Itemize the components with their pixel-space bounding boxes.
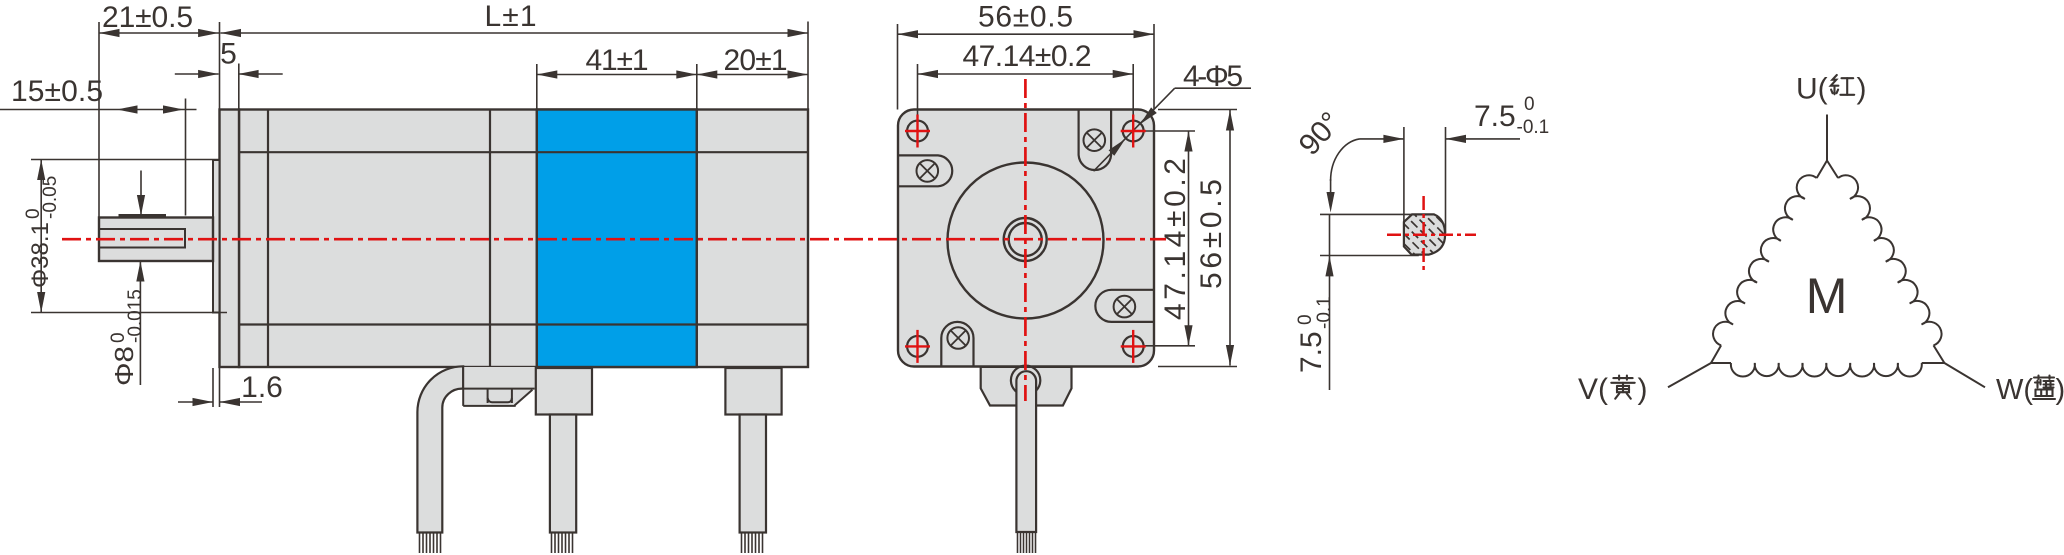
- ext line square bottom (right): [1158, 366, 1237, 368]
- body vertical line at x=268: [267, 110, 269, 368]
- svg-text:20±1: 20±1: [724, 44, 788, 77]
- front face plate (square): [898, 110, 1154, 367]
- frayed wires (right cable): [742, 532, 763, 554]
- winding lead V: [1668, 363, 1711, 387]
- svg-text:V(: V(: [1578, 373, 1608, 406]
- pilot circle: [948, 163, 1104, 319]
- grommet hole circle: [1011, 366, 1040, 395]
- screw tab top-right: [1079, 110, 1112, 171]
- middle cable tube: [550, 415, 576, 533]
- mounting hole top-right: [1123, 121, 1144, 142]
- dim 15±0.5 arrow left: [117, 105, 138, 113]
- dim 15±0.5 line: [0, 109, 197, 111]
- dim Φ38.1 ext bottom: [31, 312, 227, 314]
- dim 56 top arrow right: [1134, 30, 1155, 38]
- connector housing fill: [463, 367, 537, 389]
- shaft reduced section (inner rectangle): [99, 229, 185, 248]
- frayed wires (curved cable): [420, 532, 441, 554]
- svg-text:W(: W(: [1996, 374, 2033, 406]
- dim 20±1 arrow left: [697, 70, 718, 78]
- frayed wires (middle cable): [552, 532, 573, 554]
- dim 41±1 line: [537, 74, 697, 76]
- winding apex split: [1817, 161, 1838, 179]
- dim L±1 line: [221, 32, 809, 34]
- ext line hole BR (right): [1144, 345, 1196, 347]
- dim 1.6 arrow left: [178, 401, 213, 403]
- section ext line left flat (up): [1403, 127, 1405, 222]
- winding coil right side: [1838, 175, 1941, 345]
- front view vertical centreline: [1024, 79, 1027, 401]
- frayed wires (front cable): [1018, 532, 1036, 554]
- dim 7.5 top arrow right: [1446, 138, 1521, 140]
- blue label section: [537, 110, 697, 368]
- dim 7.5 left arrow bottom: [1329, 256, 1331, 390]
- dim L±1 arrow left: [221, 29, 242, 37]
- dim 5 arrow left: [175, 73, 219, 75]
- svg-text:-0.015: -0.015: [125, 289, 146, 343]
- dim 56 right arrow top: [1226, 110, 1234, 131]
- dim 1.6 ext line flange face: [219, 368, 221, 407]
- label 4-Φ5 arrow lower: [1109, 139, 1126, 156]
- svg-text:15±0.5: 15±0.5: [11, 75, 103, 108]
- dim Φ8 arrow bottom: [139, 261, 141, 385]
- svg-text:47.14±0.2: 47.14±0.2: [963, 40, 1092, 73]
- dim L±1 arrow right: [788, 29, 809, 37]
- main horizontal centreline: [62, 238, 1166, 241]
- dim Φ8 arrow top: [140, 171, 142, 216]
- screw tab bottom-left: [941, 322, 973, 367]
- ext line hole TR (up): [1132, 64, 1134, 121]
- front cable tube: [1016, 371, 1036, 532]
- section crosshair vertical: [1422, 196, 1425, 271]
- extension line flange back (up): [238, 64, 240, 110]
- dim Φ38.1 arrow bottom: [37, 292, 45, 313]
- section ext line top flat (left): [1320, 213, 1412, 215]
- ext line hole TL (up): [917, 64, 919, 121]
- dim 15±0.5 arrow right: [163, 105, 184, 113]
- shaft (side view): [99, 218, 213, 262]
- dim Φ38.1 arrow top: [37, 160, 45, 181]
- right cable block: [725, 368, 781, 415]
- screw bottom-left: [947, 327, 969, 349]
- svg-text:5: 5: [220, 38, 237, 71]
- dim 20±1 arrow right: [788, 70, 809, 78]
- motor body (side view): [239, 110, 808, 368]
- shaft circle outer: [1004, 218, 1047, 261]
- dim 47.14 top arrow left: [918, 70, 939, 78]
- winding coil left side: [1713, 175, 1817, 345]
- svg-text:1.6: 1.6: [241, 371, 283, 404]
- svg-text:21±0.5: 21±0.5: [102, 1, 193, 34]
- dim 21±0.5 arrow left: [99, 29, 120, 37]
- cable grommet (front view): [981, 367, 1072, 406]
- dim 90° leader arc: [1331, 139, 1360, 181]
- extension line front face (up): [219, 22, 221, 110]
- ext line square left (up): [897, 24, 899, 110]
- screw top-left: [917, 160, 939, 182]
- svg-text:0: 0: [1295, 314, 1316, 325]
- label 4-Φ5 arrow upper: [1140, 107, 1157, 124]
- shaft key flat: [119, 214, 167, 217]
- red crosshairs at mounting holes: [905, 115, 1146, 363]
- screw bottom-right: [1114, 296, 1136, 318]
- svg-text:): ): [1638, 373, 1648, 406]
- svg-text:7.5: 7.5: [1474, 100, 1516, 133]
- svg-text:7.5: 7.5: [1295, 331, 1328, 373]
- winding corner bottom-right: [1922, 345, 1945, 363]
- screw top-right: [1084, 129, 1106, 151]
- dim 41±1 arrow left: [537, 70, 558, 78]
- curved cable (left): [417, 366, 463, 532]
- pilot boss (side view): [213, 160, 220, 313]
- dim Φ38.1 line: [40, 160, 42, 313]
- extension line blue left (up): [536, 64, 538, 110]
- svg-text:56±0.5: 56±0.5: [978, 0, 1073, 33]
- mounting hole top-left: [907, 121, 928, 142]
- dim 21±0.5 arrow right: [198, 29, 219, 37]
- right cable tube: [740, 415, 766, 533]
- svg-text:Φ8: Φ8: [109, 346, 139, 386]
- svg-text:): ): [1857, 73, 1867, 106]
- svg-text:56±0.5: 56±0.5: [1195, 179, 1228, 289]
- connector housing: [463, 367, 534, 406]
- shaft circle inner: [1009, 223, 1042, 256]
- dim 47.14 top arrow right: [1113, 70, 1134, 78]
- dim 7.5 top text: [1474, 94, 1549, 138]
- svg-text:41±1: 41±1: [586, 44, 649, 77]
- winding lead W: [1944, 363, 1985, 387]
- svg-text:L±1: L±1: [485, 0, 537, 33]
- svg-text:Φ38.1: Φ38.1: [27, 222, 54, 288]
- dim 21±0.5 line: [99, 32, 220, 34]
- body inner horizontal line (top): [239, 151, 808, 153]
- dim 56±0.5 top line: [898, 33, 1155, 35]
- extension line blue right (up): [696, 64, 698, 110]
- mounting hole bottom-right: [1123, 336, 1144, 357]
- dim 47.14 top line: [918, 73, 1134, 75]
- body vertical line at x=490: [489, 110, 491, 368]
- dim 20±1 line: [697, 74, 808, 76]
- label 4-Φ5 leader: [1094, 88, 1175, 171]
- front flange (side view): [220, 110, 240, 368]
- ext line square top (right): [1158, 109, 1237, 111]
- dim 1.6 ext line boss face: [212, 368, 214, 407]
- mounting hole bottom-left: [907, 336, 928, 357]
- svg-text:-0.1: -0.1: [1517, 117, 1550, 138]
- dim 47.14 right line: [1188, 131, 1190, 346]
- winding lead U: [1826, 115, 1828, 161]
- dim 41±1 arrow right: [676, 70, 697, 78]
- ext line square right (up): [1153, 24, 1155, 110]
- dim Φ38.1 ext top: [31, 159, 220, 161]
- blue section left edge: [536, 110, 538, 368]
- dim 47.14 right arrow top: [1184, 131, 1192, 152]
- dim 56 right arrow bottom: [1226, 345, 1234, 366]
- dim 5 arrow right: [238, 73, 283, 75]
- svg-text:): ): [2056, 374, 2064, 406]
- dim 56 top arrow left: [898, 30, 919, 38]
- section ext line right (up): [1445, 127, 1447, 233]
- body inner horizontal line (bottom): [239, 323, 808, 325]
- winding coil bottom side: [1731, 363, 1922, 377]
- dim 7.5 left line: [1329, 214, 1331, 255]
- section ext line bottom (left): [1320, 255, 1419, 257]
- label 4-Φ5 underline: [1175, 87, 1251, 89]
- shaft section outline: [1404, 214, 1445, 254]
- svg-text:0: 0: [1524, 94, 1535, 115]
- screw tab top-left: [898, 155, 952, 186]
- screw tab bottom-right: [1095, 290, 1154, 322]
- ext line hole TR (right): [1144, 130, 1196, 132]
- dim 47.14 right arrow bottom: [1184, 325, 1192, 346]
- section crosshair horizontal: [1387, 234, 1476, 237]
- extension line shaft section end: [185, 99, 187, 216]
- dim 7.5 left text: [1295, 296, 1335, 373]
- dim 1.6 arrow right: [220, 401, 263, 403]
- svg-text:-0.1: -0.1: [1314, 296, 1335, 329]
- middle cable block: [536, 368, 592, 415]
- svg-text:U(: U(: [1796, 73, 1828, 106]
- blue section right edge: [696, 110, 698, 368]
- dim Φ8 text: [108, 289, 146, 386]
- svg-text:M: M: [1806, 268, 1848, 324]
- dim Φ38.1 text: [23, 176, 61, 288]
- dim 56±0.5 right line: [1229, 110, 1231, 366]
- svg-text:-0.05: -0.05: [40, 176, 61, 219]
- dim 7.5 top arrow left: [1360, 138, 1404, 140]
- extension line shaft front face: [98, 22, 100, 217]
- winding corner bottom-left: [1711, 345, 1731, 363]
- extension line back face (up): [807, 22, 809, 110]
